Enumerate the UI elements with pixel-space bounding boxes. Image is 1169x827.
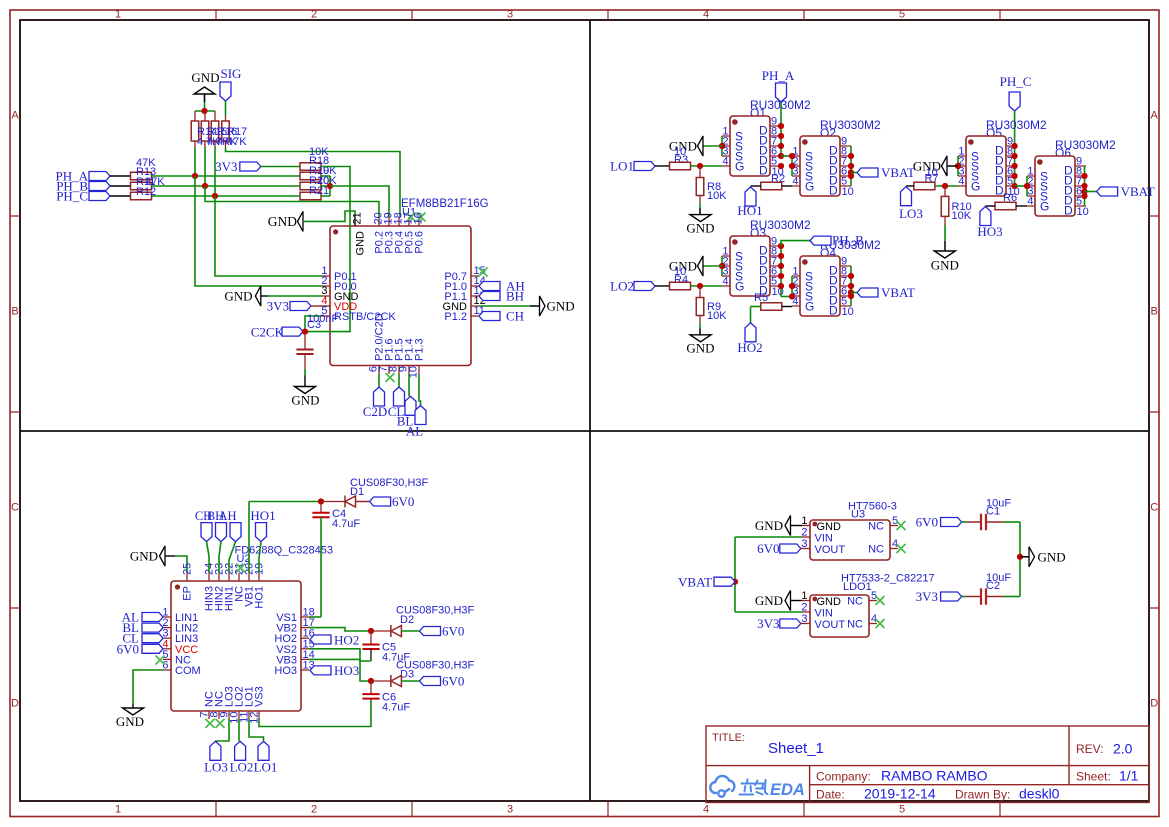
svg-text:GND: GND: [755, 518, 783, 533]
junction R7 R10: [942, 183, 948, 189]
junction drain Q1: [778, 143, 784, 149]
IC U3 HT7560 body: [810, 520, 890, 560]
port AL flag: [415, 406, 426, 425]
wire gnd lead pin12: [530, 305, 540, 307]
wire PH_B link: [781, 241, 810, 246]
wire C5 to VS2: [309, 649, 371, 661]
wire to VBAT Q6: [1085, 191, 1097, 193]
svg-text:SIG: SIG: [221, 66, 242, 81]
pin stub left U2: [163, 637, 171, 639]
wire C4 to VS1: [320, 517, 322, 617]
junction drain Q5: [1012, 163, 1018, 169]
wire to D2: [371, 630, 391, 632]
svg-text:GND: GND: [191, 70, 219, 85]
junction drain Q2: [848, 173, 854, 179]
wire SIG down: [225, 101, 227, 115]
pin stub bottom U1: [408, 366, 410, 375]
svg-text:G: G: [805, 300, 814, 314]
capacitor C5: [362, 645, 379, 650]
pin stub left U1: [322, 315, 330, 317]
svg-text:3V3: 3V3: [757, 616, 779, 631]
junction gnd Q1: [719, 143, 725, 149]
junction VBAT Q4: [848, 289, 854, 295]
port 3V3 flag LDO1: [780, 619, 801, 628]
pin-1 dot Q1: [732, 119, 738, 125]
svg-text:Sheet:: Sheet:: [1076, 770, 1111, 784]
wire 3V3 to C2: [962, 596, 967, 598]
junction drain Q2: [848, 163, 854, 169]
svg-text:HO1: HO1: [250, 508, 275, 523]
pin stub top U2: [238, 573, 240, 581]
svg-text:VOUT: VOUT: [815, 544, 846, 556]
svg-text:RSTB/C2CK: RSTB/C2CK: [334, 311, 396, 323]
svg-text:LO3: LO3: [204, 760, 228, 775]
wire R3 to Q1 gate: [691, 165, 723, 167]
wire C3 to gnd: [304, 369, 306, 376]
wire R21 out: [321, 195, 330, 197]
wire gnd lead pin3: [261, 295, 268, 297]
wire PH_B net: [152, 185, 301, 187]
svg-text:Company:: Company:: [816, 770, 871, 784]
wire C2 lead left: [967, 596, 981, 598]
junction source Q2: [789, 163, 795, 169]
wire R10 lead: [944, 216, 946, 225]
wire source bracket Q1: [721, 136, 723, 156]
port CH flag top: [201, 523, 212, 542]
svg-text:4: 4: [703, 9, 709, 21]
pin-1 dot Q6: [1037, 159, 1043, 165]
wire HO3 to R6: [985, 205, 995, 207]
svg-text:TITLE:: TITLE:: [712, 732, 745, 744]
svg-text:EP: EP: [182, 586, 194, 601]
wire PH_C down: [1014, 111, 1016, 146]
svg-text:NC: NC: [868, 544, 884, 556]
resistor R4: [670, 282, 691, 290]
junction PH_C: [212, 193, 218, 199]
port 3V3 flag C2: [941, 592, 962, 601]
ground symbol right rail: [1029, 547, 1035, 567]
wire drain bus Q2: [850, 146, 852, 186]
pin stub top U1: [378, 217, 380, 226]
resistor R16: [211, 121, 219, 141]
wire gnd to EP: [175, 556, 187, 573]
pin stub right U3: [890, 548, 898, 550]
junction drain Q3: [778, 243, 784, 249]
svg-text:6V0: 6V0: [442, 674, 464, 689]
svg-text:G: G: [971, 180, 980, 194]
pin stub top U1: [418, 217, 420, 226]
pin-1 dot Q4: [802, 259, 808, 265]
wire down to VB1 pin20: [248, 502, 250, 574]
port 6V0 flag D3: [420, 677, 441, 686]
svg-text:GND: GND: [224, 289, 252, 304]
wire pin9 to LO3: [215, 719, 229, 741]
svg-text:4: 4: [703, 804, 709, 816]
wire R5 to Q4 gate: [782, 306, 792, 308]
pin stub right U1: [471, 275, 479, 277]
pin stub left LDO1: [802, 623, 810, 625]
port PH_C flag: [89, 192, 110, 201]
svg-text:RAMBO RAMBO: RAMBO RAMBO: [881, 768, 988, 784]
resistor R6: [995, 202, 1016, 210]
junction drain Q1: [778, 153, 784, 159]
pin stub top U2: [258, 573, 260, 581]
wire gnd Q5: [947, 165, 958, 167]
svg-text:C3: C3: [307, 319, 321, 331]
pin stub right U2: [301, 616, 309, 618]
no-connect U3 pin5: [897, 521, 906, 530]
port VBAT flag Q4: [857, 288, 878, 297]
wire to R8: [699, 166, 701, 178]
no-connect pin5 U2: [156, 656, 165, 665]
pin stub left U2: [163, 627, 171, 629]
svg-text:GND: GND: [547, 299, 575, 314]
port LO1 flag: [634, 162, 655, 171]
svg-text:C2CK: C2CK: [251, 325, 285, 340]
IC LDO1 HT7533 body: [810, 595, 869, 637]
svg-text:VIN: VIN: [815, 608, 833, 620]
wire gnd lead: [204, 95, 206, 103]
svg-text:GND: GND: [817, 596, 842, 608]
svg-text:VBAT: VBAT: [881, 285, 915, 300]
ground symbol pin3: [255, 286, 260, 306]
svg-text:C1: C1: [986, 506, 1000, 518]
diode D3: [391, 675, 402, 687]
pin stub left U1: [322, 295, 330, 297]
no-connect pin17: [407, 213, 416, 222]
wire R8 lead: [699, 196, 701, 204]
pin stub right U2: [301, 658, 309, 660]
wire source bracket Q3: [721, 256, 723, 276]
svg-text:VOUT: VOUT: [815, 619, 846, 631]
port PH_B flag right: [810, 236, 831, 245]
junction drain Q5: [1012, 153, 1018, 159]
pin stub right U1: [471, 315, 479, 317]
svg-text:R3: R3: [674, 154, 688, 166]
svg-text:NC: NC: [847, 596, 863, 608]
wire pin10 to LO2: [238, 719, 240, 741]
wire PH_A net: [152, 175, 301, 177]
svg-text:D: D: [1150, 698, 1158, 710]
wire pin8 to CL: [398, 374, 400, 387]
wire PH_C to P0.1: [215, 196, 322, 276]
port BH flag: [479, 292, 500, 301]
pin-1 dot U1: [333, 229, 338, 234]
wire source bracket Q5: [957, 156, 959, 176]
svg-text:6V0: 6V0: [117, 641, 139, 656]
svg-text:HO1: HO1: [254, 586, 266, 609]
wire 3v3 to pin4: [311, 305, 322, 307]
svg-text:6V0: 6V0: [757, 541, 779, 556]
wire R8 gnd lead: [699, 208, 701, 215]
pin stub right U1: [471, 285, 479, 287]
junction C2CK: [302, 329, 308, 335]
wire gnd to pin21: [303, 211, 355, 221]
wire pin12 gnd: [479, 305, 530, 307]
svg-text:VBAT: VBAT: [881, 165, 915, 180]
transistor Q3 body: [730, 236, 770, 296]
svg-text:BH: BH: [506, 289, 524, 304]
wire source bracket Q2: [791, 156, 793, 176]
wire C1 lead left: [967, 521, 981, 523]
svg-text:16: 16: [413, 212, 425, 224]
wire VB3 node: [309, 659, 371, 681]
port AH flag: [479, 282, 500, 291]
pin stub top U1: [388, 217, 390, 226]
pin stub top U1: [408, 217, 410, 226]
wire R20 out: [321, 185, 330, 187]
wire R6 to Q6 gate: [1016, 205, 1027, 207]
resistor R5: [761, 303, 782, 311]
wires CH BH AH to pins: [207, 542, 236, 573]
svg-text:2: 2: [311, 804, 317, 816]
pin stubs Q3: [722, 246, 781, 286]
svg-text:B: B: [1151, 306, 1158, 318]
junction gnd Q3: [719, 263, 725, 269]
svg-text:PH_C: PH_C: [1000, 74, 1032, 89]
svg-text:GND: GND: [755, 593, 783, 608]
junction PH_A: [192, 173, 198, 179]
port 6V0 flag U3: [780, 544, 801, 553]
junction drain Q3: [778, 283, 784, 289]
wire to VBAT: [851, 172, 857, 174]
port CL flag: [394, 387, 405, 406]
logo EasyEDA text LiChuang glyphs: [740, 780, 768, 795]
resistor R2: [761, 182, 782, 190]
svg-text:VBAT: VBAT: [678, 575, 712, 590]
pin stub left U2: [163, 669, 171, 671]
capacitor C1: [981, 514, 986, 531]
wire PH_B to P0.2: [205, 186, 379, 217]
svg-text:A: A: [11, 110, 19, 122]
wire Q3 to Q4: [781, 296, 792, 298]
port HO1 flag top: [256, 523, 267, 542]
wire PH_A to R13: [110, 175, 131, 177]
wire LO1 to R3: [655, 165, 670, 167]
wire to C5: [370, 631, 372, 645]
svg-text:HO3: HO3: [274, 665, 297, 677]
transistor Q4 body: [800, 256, 840, 316]
wire R16 to PH_C node: [214, 147, 216, 196]
svg-text:VBAT: VBAT: [1121, 184, 1155, 199]
capacitor C2: [981, 588, 986, 605]
wire source bracket Q6: [1026, 176, 1028, 196]
port 6V0 flag D1: [370, 497, 391, 506]
svg-text:D1: D1: [350, 486, 364, 498]
resistor R17: [222, 121, 230, 141]
wire drain bus Q1: [780, 126, 782, 156]
svg-text:3: 3: [801, 538, 807, 550]
wire resistor stub: [204, 111, 206, 121]
resistor R7: [914, 182, 935, 190]
junction source link Q4: [789, 293, 795, 299]
svg-text:2: 2: [801, 527, 807, 539]
port VBAT flag Q2: [857, 168, 878, 177]
port HO1 flag: [745, 187, 756, 206]
port 6V0 flag D2: [420, 627, 441, 636]
pin stubs Q2: [792, 146, 851, 186]
wire HO2 drop: [751, 306, 761, 308]
no-connect pin7: [386, 373, 395, 382]
svg-text:25: 25: [182, 563, 194, 575]
pin stub right U3: [890, 525, 898, 527]
pin stubs Q6: [1027, 166, 1086, 206]
pin stub right U2: [301, 648, 309, 650]
wire to C6: [370, 681, 372, 694]
wire PH_A down: [780, 102, 782, 126]
wire pin9 to BL: [408, 374, 410, 396]
wire 3V3 to VOUT LDO1: [801, 623, 802, 625]
wire VB2 node: [309, 628, 371, 631]
port PH_A flag top: [776, 83, 787, 102]
junction drain Q4: [848, 283, 854, 289]
svg-text:3V3: 3V3: [215, 159, 237, 174]
pin stub left U1: [322, 285, 330, 287]
quadrant divider vertical: [589, 20, 591, 801]
junction VBAT Q6: [1081, 188, 1087, 194]
junction drain Q5: [1012, 143, 1018, 149]
svg-text:2: 2: [801, 602, 807, 614]
junction drain Q2: [848, 153, 854, 159]
svg-text:P0.6: P0.6: [414, 231, 426, 254]
pin-1 dot Q2: [802, 139, 808, 145]
no-connect LDO1 pin5: [876, 596, 885, 605]
junction gnd Q5: [955, 163, 961, 169]
svg-text:GND: GND: [268, 214, 297, 229]
pin stubs Q4: [792, 266, 851, 306]
logo EasyEDA cloud: [710, 776, 734, 797]
no-connect pin21 U2: [236, 564, 245, 573]
svg-text:LO1: LO1: [610, 159, 634, 174]
svg-text:COM: COM: [175, 665, 201, 677]
svg-text:5: 5: [899, 804, 905, 816]
svg-text:D: D: [11, 698, 19, 710]
pin stub top U2: [218, 573, 220, 581]
svg-text:CH: CH: [506, 309, 524, 324]
resistor R13: [131, 172, 152, 180]
wire pin6 to C2D: [378, 374, 380, 387]
ground symbol below R9: [690, 335, 711, 342]
wire to C4: [320, 502, 322, 513]
junction D2 C5: [368, 628, 374, 634]
svg-text:GND: GND: [130, 549, 158, 564]
pin stub right LDO1: [869, 600, 877, 602]
wire to D3: [371, 680, 391, 682]
svg-text:Sheet_1: Sheet_1: [768, 740, 824, 757]
svg-text:Date:: Date:: [816, 788, 845, 802]
wire D3 to 6V0: [401, 680, 419, 682]
svg-text:HO2: HO2: [334, 632, 359, 647]
wire 6V0 to C1: [962, 521, 967, 523]
no-connect U3 pin4: [897, 544, 906, 553]
wire gnd Q1: [703, 145, 722, 147]
wire PH_B to R11: [110, 185, 131, 187]
junction drain Q3: [778, 263, 784, 269]
svg-text:U3: U3: [851, 509, 865, 521]
wire gnd rail right: [1019, 522, 1021, 597]
svg-text:HO1: HO1: [737, 203, 762, 218]
svg-text:EDA: EDA: [770, 781, 805, 799]
junction bank tie: [327, 183, 333, 189]
wire R10 to gnd: [944, 225, 946, 241]
resistor R9: [696, 298, 704, 316]
svg-text:4.7uF: 4.7uF: [382, 702, 410, 714]
port AL flag left: [142, 613, 163, 622]
wire gnd Q3: [703, 265, 722, 267]
svg-text:10K: 10K: [707, 190, 727, 202]
wire VB1 node: [249, 501, 321, 503]
wire 6V0 to VOUT U3: [801, 548, 802, 550]
wire PH_C to R12: [110, 195, 131, 197]
port 6V0 flag left: [142, 644, 163, 653]
pin-1 dot Q3: [732, 239, 738, 245]
svg-text:4.7uF: 4.7uF: [332, 518, 360, 530]
pin stub bottom U2: [218, 711, 220, 719]
wire HO1 to R2: [751, 185, 761, 187]
capacitor C6: [362, 694, 379, 699]
ground symbol below R10: [934, 251, 955, 258]
svg-text:LO1: LO1: [254, 760, 278, 775]
svg-text:3V3: 3V3: [267, 299, 289, 314]
wire Q1 to Q2: [781, 155, 792, 157]
svg-text:R12: R12: [136, 186, 156, 198]
svg-text:GND: GND: [931, 258, 959, 273]
wire gnd to resistor rail: [204, 102, 206, 111]
resistor R3: [670, 162, 691, 170]
port LO3 flag bottom: [210, 741, 221, 760]
svg-text:AH: AH: [218, 509, 236, 523]
IC U1 EFM8BB21F16G body: [330, 226, 471, 366]
wire R4 to Q3 gate: [691, 285, 723, 287]
no-connect pin8 U2: [216, 719, 225, 728]
svg-text:10: 10: [842, 306, 854, 318]
svg-text:G: G: [805, 180, 814, 194]
svg-text:1: 1: [115, 804, 121, 816]
port BL flag left: [142, 623, 163, 632]
svg-text:10: 10: [1077, 206, 1089, 218]
transistor Q2 body: [800, 136, 840, 196]
wire C2 to gnd rail: [1004, 596, 1020, 598]
svg-text:deskl0: deskl0: [1019, 786, 1060, 802]
junction drain Q1: [778, 123, 784, 129]
wire R15 to PH_B node: [204, 147, 206, 186]
transistor Q6 body: [1035, 156, 1075, 216]
resistor R11: [131, 182, 152, 190]
pin-1 dot U2: [175, 584, 180, 589]
junction PH_B: [202, 183, 208, 189]
wire gnd to U3 pin1: [791, 525, 803, 527]
pin-1 dot LDO1: [812, 597, 817, 602]
wire VBAT rail: [734, 537, 736, 612]
resistor R10: [941, 196, 949, 216]
wire VBAT to VIN U3: [735, 536, 802, 538]
svg-text:10K: 10K: [707, 310, 727, 322]
wire drain bus Q4: [850, 266, 852, 306]
wire pin10 to AL: [419, 374, 421, 406]
ground symbol LDO1: [785, 591, 791, 611]
svg-text:3: 3: [507, 9, 513, 21]
svg-text:2019-12-14: 2019-12-14: [864, 786, 936, 802]
wire drain bus Q6: [1084, 166, 1086, 206]
wire C2 lead right: [986, 596, 1004, 598]
pin-1 dot U3: [812, 522, 817, 527]
pin stub left U3: [802, 525, 810, 527]
svg-text:C: C: [1150, 502, 1158, 514]
pin stub right U1: [471, 295, 479, 297]
svg-text:AL: AL: [406, 424, 423, 439]
wire bank tie vertical: [329, 176, 331, 196]
wire 3V3 to R18: [261, 166, 300, 168]
